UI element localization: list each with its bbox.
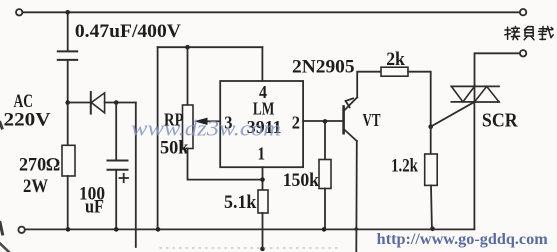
char 载 bbox=[539, 26, 554, 39]
wire emitter to 2k bbox=[357, 72, 381, 98]
triac SCR bbox=[451, 85, 499, 87]
terminal T1 top-left bbox=[16, 9, 22, 15]
svg-text:0.47uF/400V: 0.47uF/400V bbox=[75, 22, 182, 42]
svg-text:SCR: SCR bbox=[482, 110, 519, 131]
terminal T4 bottom-left bbox=[18, 227, 24, 233]
resistor R1 270ohm 2W bbox=[62, 145, 75, 176]
wire pin 1 lead bbox=[262, 167, 264, 190]
svg-text:uF: uF bbox=[85, 198, 104, 218]
wire top rail bbox=[23, 11, 520, 13]
wire 150k lower bbox=[324, 189, 326, 230]
char 接 bbox=[505, 26, 520, 39]
wire pin 2 to base bbox=[303, 120, 344, 122]
wire left rail mid bbox=[67, 60, 69, 145]
wire pot bottom lead bbox=[188, 149, 263, 180]
polarity plus mark bbox=[120, 177, 129, 179]
resistor R3 150k bbox=[319, 160, 331, 189]
bottom crop artifacts bbox=[160, 247, 340, 249]
wire SCR anode down to bottom rail bbox=[473, 102, 475, 229]
svg-text:220V: 220V bbox=[4, 111, 52, 131]
wire gate diagonal bbox=[431, 102, 475, 127]
diode VD1 bbox=[90, 92, 92, 114]
svg-text:5.1k: 5.1k bbox=[224, 193, 257, 213]
svg-text:2W: 2W bbox=[23, 177, 48, 197]
resistor R2 5.1k bbox=[258, 190, 268, 213]
terminal T3 right (load) bbox=[520, 50, 526, 56]
wire mid rail bbox=[157, 47, 159, 229]
wire pot top lead bbox=[187, 47, 189, 105]
op-amp U1 LM3911 box bbox=[220, 81, 303, 167]
wire collector down bbox=[355, 141, 358, 252]
svg-text:VT: VT bbox=[363, 110, 381, 130]
svg-text:2k: 2k bbox=[386, 50, 405, 70]
wire 1.2k upper bbox=[430, 127, 432, 154]
svg-text:2N2905: 2N2905 bbox=[292, 58, 355, 78]
svg-text:1: 1 bbox=[258, 143, 266, 163]
node junction base/150k bbox=[323, 119, 328, 124]
node junction diode-right bbox=[114, 100, 119, 105]
resistor R5 1.2k bbox=[425, 154, 438, 185]
wire 150k upper bbox=[324, 121, 326, 159]
wire from T3 to SCR anode bbox=[475, 53, 520, 85]
wire bottom rail bbox=[25, 228, 474, 230]
svg-text:2: 2 bbox=[292, 113, 300, 133]
wire distribution top bbox=[158, 46, 263, 48]
node junctions bottom rail bbox=[66, 227, 71, 232]
node junction pot-top bbox=[185, 45, 190, 50]
wire 100uF branch lower bbox=[115, 170, 117, 229]
svg-text:http://www.go-gddq.com: http://www.go-gddq.com bbox=[377, 231, 549, 248]
wiper arrow to pin 3 bbox=[206, 120, 220, 122]
transistor Q1 2N2905 VT bbox=[342, 107, 345, 134]
node junction pin1 bbox=[260, 177, 265, 182]
resistor R4 2k bbox=[381, 67, 408, 76]
node junction gate bbox=[428, 124, 433, 129]
svg-text:www.dz3w.com: www.dz3w.com bbox=[131, 116, 281, 141]
wire pin 4 lead bbox=[261, 47, 263, 81]
svg-text:270Ω: 270Ω bbox=[19, 156, 60, 176]
label load 接负载 (drawn strokes) bbox=[505, 26, 553, 39]
capacitor C2 100uF electrolytic bbox=[108, 160, 128, 162]
wire 5.1k lower crossing rail bbox=[262, 213, 264, 249]
svg-text:50k: 50k bbox=[160, 139, 189, 159]
svg-text:AC: AC bbox=[14, 92, 34, 112]
node junction diode-left bbox=[65, 100, 70, 105]
char 负 bbox=[524, 26, 534, 39]
wire 2k to gate node bbox=[408, 72, 431, 127]
potentiometer RP 50k bbox=[183, 105, 194, 149]
wire 1.2k lower bbox=[430, 185, 433, 229]
node junction top-left rail bbox=[65, 10, 70, 15]
wire left rail upper bbox=[67, 12, 69, 51]
svg-text:150k: 150k bbox=[283, 171, 320, 191]
capacitor C1 0.47uF/400V bbox=[58, 50, 77, 52]
wire diode row bbox=[68, 102, 90, 104]
svg-text:1.2k: 1.2k bbox=[391, 157, 418, 177]
node dot below rail bbox=[260, 247, 265, 252]
wire 100uF branch upper bbox=[115, 103, 117, 161]
wire stub crossing bottom rail bbox=[135, 103, 137, 248]
wire left rail lower bbox=[67, 176, 69, 229]
terminal T2 top-right bbox=[520, 9, 526, 15]
